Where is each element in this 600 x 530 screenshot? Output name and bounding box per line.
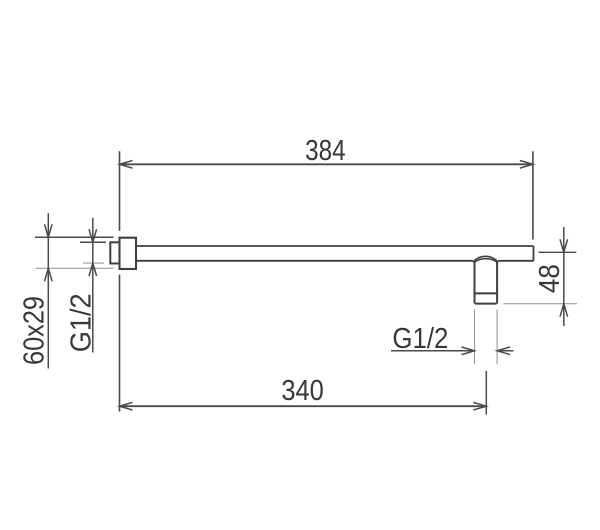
arrow 340 left [120, 402, 133, 410]
svg-text:G1/2: G1/2 [66, 293, 98, 352]
arm bottom line right of outlet [498, 260, 533, 262]
arrow 60x29 top [45, 224, 53, 237]
G1/2 leader line right [497, 350, 513, 352]
arm top line [136, 245, 534, 247]
arm right end line [533, 246, 535, 261]
flange body [120, 238, 137, 269]
arrow 48 bottom [560, 304, 568, 317]
outlet right extension line below [496, 310, 498, 365]
arrow 384 right [520, 161, 533, 169]
dimension line 384 [120, 163, 533, 165]
svg-text:340: 340 [281, 375, 324, 407]
nipple (wall connector) [110, 242, 119, 263]
arrow 48 top [560, 239, 568, 252]
dimension line 60x29 [47, 213, 49, 368]
svg-text:60x29: 60x29 [19, 296, 51, 365]
outlet left extension line below [474, 310, 476, 365]
outlet bottom edge [475, 303, 497, 305]
flange top extension line [35, 236, 114, 238]
dimension 340 right extension line [485, 371, 487, 415]
nipple bottom extension line [83, 262, 104, 264]
dimension line 340 [120, 405, 487, 407]
flange bottom extension line [36, 267, 114, 269]
G1/2 leader arrow right [497, 347, 510, 355]
dimension line G1/2 left [92, 218, 94, 353]
G1/2 leader arrow left [462, 347, 475, 355]
wall plane line lower segment [119, 275, 121, 412]
wall plane line upper segment [119, 151, 121, 231]
outlet dome inner arc [474, 259, 497, 263]
svg-text:48: 48 [534, 264, 566, 293]
arrow G1/2 left bottom [89, 263, 97, 276]
arrow 60x29 bottom [45, 268, 53, 281]
outlet dome outer arc [473, 256, 498, 262]
dimension line 48 [563, 227, 565, 326]
outlet thread line [475, 292, 498, 294]
outlet left side [474, 262, 476, 304]
arm bottom line left of outlet [136, 260, 473, 262]
dimension 48 bottom extension line [504, 303, 578, 305]
arrow G1/2 left top [89, 229, 97, 242]
outlet right side [496, 262, 498, 304]
G1/2 leader line left [391, 350, 475, 352]
arrow 340 right [473, 402, 486, 410]
nipple top extension line [80, 241, 106, 243]
arrow 384 left [120, 161, 133, 169]
dimension 384 extension line right [532, 151, 534, 239]
dimension 48 top extension line [539, 251, 577, 253]
svg-text:384: 384 [305, 135, 346, 167]
